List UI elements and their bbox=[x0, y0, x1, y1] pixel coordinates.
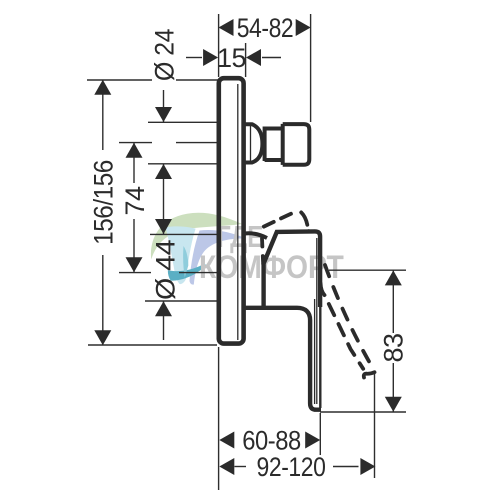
svg-text:83: 83 bbox=[379, 333, 409, 362]
svg-text:54-82: 54-82 bbox=[237, 13, 294, 43]
svg-text:Ø 44: Ø 44 bbox=[150, 240, 180, 300]
svg-text:ГДЕ: ГДЕ bbox=[217, 219, 263, 254]
svg-text:156/156: 156/156 bbox=[89, 160, 118, 245]
svg-text:15: 15 bbox=[217, 43, 246, 73]
svg-text:92-120: 92-120 bbox=[257, 452, 326, 482]
svg-text:Ø 24: Ø 24 bbox=[151, 29, 180, 81]
svg-text:74: 74 bbox=[120, 186, 150, 216]
